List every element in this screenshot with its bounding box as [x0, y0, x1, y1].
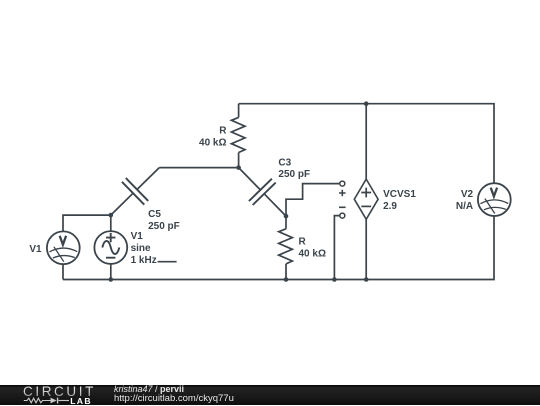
svg-text:N/A: N/A — [456, 201, 473, 212]
svg-text:2.9: 2.9 — [383, 201, 397, 212]
svg-text:VCVS1: VCVS1 — [383, 189, 416, 200]
svg-text:1 kHz: 1 kHz — [131, 255, 157, 266]
svg-text:V1: V1 — [29, 244, 42, 255]
svg-text:40 kΩ: 40 kΩ — [199, 137, 226, 148]
svg-text:C3: C3 — [278, 157, 291, 168]
svg-text:R: R — [299, 237, 307, 248]
svg-text:V1: V1 — [131, 231, 144, 242]
svg-text:R: R — [219, 125, 227, 136]
svg-text:250 pF: 250 pF — [148, 221, 180, 232]
svg-text:250 pF: 250 pF — [278, 169, 310, 180]
svg-text:C5: C5 — [148, 209, 161, 220]
svg-text:40 kΩ: 40 kΩ — [299, 249, 326, 260]
svg-text:V2: V2 — [461, 189, 474, 200]
svg-text:sine: sine — [131, 243, 151, 254]
